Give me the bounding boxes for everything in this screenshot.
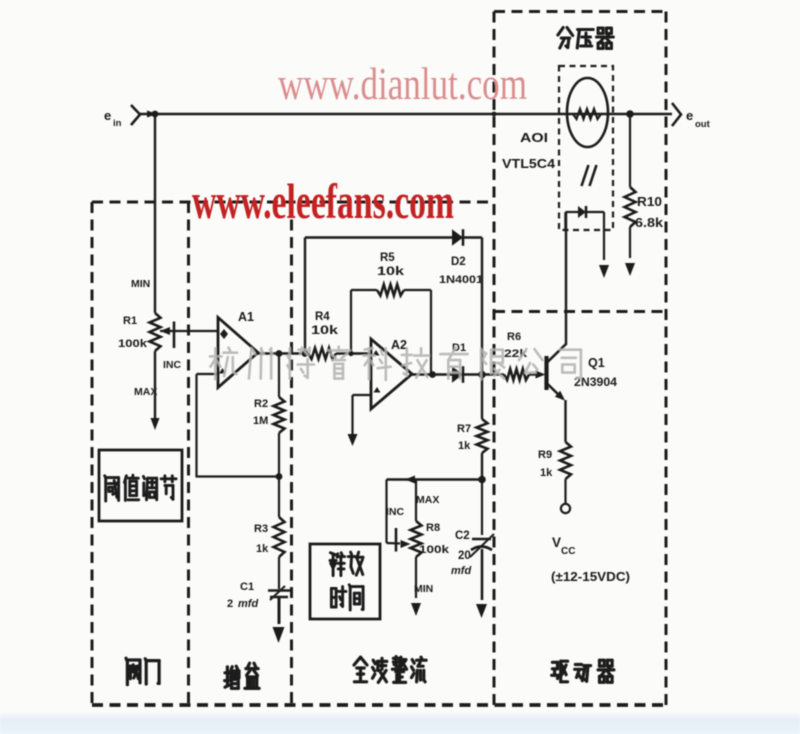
box label 释放时间 line1 [330,553,345,576]
transistor Q1 2N3904 base bar [544,356,548,390]
svg-text:10k: 10k [377,266,405,278]
svg-text:INC: INC [386,506,405,518]
resistor R2 1M [274,397,285,433]
分压器 box top dashed edge [494,10,666,13]
section label 全波整流 [354,657,367,682]
wire A1 inverting input feedback [197,373,219,375]
section label 分压器 [558,28,573,49]
arrow into Q1 base [536,371,546,379]
svg-text:100k: 100k [419,544,450,556]
section boxes top dashed edge [92,201,494,204]
分压器/驱动器 right dashed edge [665,12,668,706]
resistor R1 100k potentiometer [150,313,161,351]
box label 释放时间 line2 [331,587,346,607]
svg-text:A2: A2 [391,338,407,352]
resistor R6 22k [504,369,529,380]
wire A2 output [412,373,452,375]
gray watermark 杭州将睿科技有限公司 [210,348,237,380]
wire R5 top right [404,289,431,291]
ground arrow below A2 [348,434,358,446]
wire down leg to output node [481,238,483,375]
resistor R4 10k [308,348,336,359]
svg-text:CC: CC [561,546,575,557]
wire node to R8 branch [387,478,483,480]
e_out chevron [672,103,681,126]
capacitor C1 2mfd [268,589,290,592]
node output/R7 junction [478,371,486,379]
svg-text:out: out [695,119,711,130]
section box 阀门 (valve) left dashed edge [91,202,94,705]
svg-text:100k: 100k [118,338,148,350]
svg-text:R2: R2 [254,398,268,410]
resistor R8 100k potentiometer [411,521,422,557]
resistor R3 1k [274,517,285,557]
wire R3 to C1 [278,557,280,589]
optical coupling marks // [582,165,589,186]
svg-text:D2: D2 [451,256,466,268]
photoresistor zigzag [573,109,601,119]
svg-text:MIN: MIN [131,278,150,290]
wire R10 to ground [629,227,631,258]
svg-text:R1: R1 [123,315,137,327]
divider 阀门/增益 [187,202,190,705]
wire e_in down to R1 [154,114,156,313]
svg-text:1k: 1k [458,440,471,452]
resistor R10 6.8k [625,187,636,227]
node R5 left leg [348,351,353,356]
node R7/R8/C2 junction [478,476,486,484]
wire e_in to e_out main horizontal [140,113,672,115]
wire R9 to Vcc terminal [564,479,566,504]
R1 wiper arrow [160,327,170,335]
Q1 collector [547,344,567,363]
svg-text:10k: 10k [311,325,339,337]
R8 wiper bar [395,528,398,552]
svg-text:www.dianlut.com: www.dianlut.com [278,58,527,109]
node feedback tap [302,350,309,357]
svg-text:A1: A1 [238,310,254,324]
wire to R3 [278,477,280,517]
svg-text:1k: 1k [256,543,269,555]
Q1 emitter with arrow [547,383,564,399]
op-amp A1 [218,318,258,388]
svg-text:in: in [113,118,122,129]
node R2/R3/feedback junction [276,473,283,480]
wire R5 left leg [350,290,352,354]
svg-text:VTL5C4: VTL5C4 [502,156,556,171]
svg-text:e: e [686,108,693,123]
section label 驱动器 [552,661,568,682]
ground arrow below C2 [476,604,487,618]
svg-text:2: 2 [227,598,233,610]
svg-text:R4: R4 [315,311,330,323]
Vcc terminal circle [561,504,570,513]
node optocoupler/R10 junction [626,110,634,118]
node R5 right junction [429,371,436,378]
svg-text:6.8k: 6.8k [635,216,663,230]
wire top feedback horizontal [305,236,452,238]
svg-text:20: 20 [458,550,471,562]
wire C2 to ground [481,549,484,600]
svg-text:1k: 1k [540,467,553,479]
svg-text:R8: R8 [426,522,440,534]
LED right wire down [586,211,604,213]
wire R4 to A2 input [336,352,371,354]
svg-text:R9: R9 [538,449,552,461]
wire R5 top left [351,289,377,291]
divider 分压器/驱动器 dashed [494,310,666,313]
svg-text:V: V [552,535,561,550]
wire R1 to ground arrow [154,351,156,420]
diode D2 1N4001 [452,229,463,246]
svg-text:R7: R7 [457,423,471,435]
svg-text:R3: R3 [254,523,268,535]
A2 inverting input mark [373,350,380,356]
wire LED anode down to Q1 collector (already vertical) [564,212,566,230]
wire A1 output to R4 [258,352,308,354]
wire R6 to Q1 base [529,373,540,375]
box label 阈值调节 [105,476,119,501]
svg-text:R6: R6 [507,331,521,343]
svg-text:R10: R10 [637,195,662,209]
node e_in junction [152,111,159,118]
bottom blue band [0,712,800,734]
op-amp A2 [371,339,412,409]
wire feedback tap up [304,238,306,354]
optocoupler VTL5C4 inner dashed box [559,66,613,230]
release time box 释放时间 [310,544,380,619]
wire R8 top [415,480,417,522]
wire R2 bottom [278,433,280,477]
A1 noninverting input mark [220,329,228,339]
svg-text:(±12-15VDC): (±12-15VDC) [551,569,630,584]
svg-text:AOI: AOI [520,130,548,145]
R1 wiper bar [173,322,176,349]
wire R2 top [278,354,280,398]
svg-text:1M: 1M [253,415,268,427]
resistor R9 1k [560,442,571,479]
ground arrow below C1 [273,627,285,643]
e_in source chevron [131,105,140,125]
ground arrow below R1 [151,418,160,430]
divider 全波整流/驱动器 [493,12,496,706]
svg-text:C2: C2 [455,530,470,542]
svg-text:MIN: MIN [414,583,433,595]
svg-text:mfd: mfd [238,598,258,610]
svg-text:1N4001: 1N4001 [439,274,483,286]
svg-text:MAX: MAX [416,494,439,506]
svg-text:Q1: Q1 [588,356,605,370]
svg-text:mfd: mfd [451,565,471,577]
wire R7 to node [481,453,483,480]
section label 增益 [225,666,239,688]
LED wire horizontal [566,211,579,213]
A2 noninverting input mark [374,387,381,393]
threshold adjust box 阈值调节 [99,450,182,521]
optocoupler photocell ellipse [567,78,608,147]
node R2 top [276,350,283,357]
resistor R5 10k [377,285,404,296]
wire A2 + input to ground [353,394,372,396]
A1 inverting input mark [219,368,226,374]
wire C2 top [481,480,483,536]
wire output node down to R7 [481,375,483,420]
LED diode [578,206,586,218]
arrow on input wire [147,111,157,118]
arrow on R8 branch wire [405,476,415,484]
wire node down to R10 [629,114,631,187]
ground arrow below R10 [625,263,635,276]
svg-text:INC: INC [163,359,182,371]
svg-text:R5: R5 [380,252,395,264]
ground arrow below LED [599,265,609,278]
diode D1 [452,366,463,383]
ground arrow below R8 [411,603,421,616]
divider 增益/全波整流 [290,202,293,705]
wire R5 right leg [430,290,432,375]
R1 wiper wire to A1 [160,330,218,332]
R8 wiper arrow [401,540,411,548]
section label 阀门 [126,658,140,684]
wire D2 to down leg [461,236,482,238]
svg-text:C1: C1 [240,581,254,593]
wire R8 wiper loop [385,480,387,544]
wire C1 to ground [278,598,281,624]
wire R8 bottom [415,557,417,598]
resistor R7 1k [477,419,488,453]
capacitor C2 20mfd [472,538,491,541]
svg-text:e: e [104,108,111,123]
svg-text:MAX: MAX [134,386,157,398]
wire D1 to R6 [461,373,504,375]
svg-text:www.eleefans.com: www.eleefans.com [192,173,454,229]
node at box edge [492,112,497,117]
section boxes bottom dashed edge [92,703,666,707]
wire Q1 emitter down to R9 [564,400,566,442]
